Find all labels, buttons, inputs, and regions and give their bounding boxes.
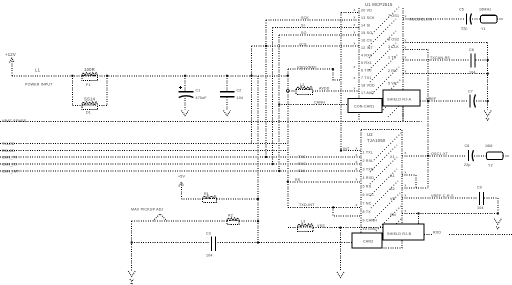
svg-text:C5: C5 xyxy=(459,8,464,12)
wire pin y=188 xyxy=(402,187,428,189)
svg-text:CAN_RX: CAN_RX xyxy=(2,163,18,167)
ground under C2 xyxy=(223,111,230,116)
wire AVDD y=90.5 xyxy=(313,90,359,92)
svg-text:4 RXD: 4 RXD xyxy=(363,176,375,180)
svg-text:GN: GN xyxy=(390,213,396,217)
svg-text:TXCAN-RS: TXCAN-RS xyxy=(430,56,450,60)
svg-text:C7: C7 xyxy=(468,90,473,94)
connector J2 box xyxy=(383,90,420,106)
wire RX y=73.6 xyxy=(403,73,488,75)
svg-text:SHIELD RJ-B: SHIELD RJ-B xyxy=(387,232,412,236)
svg-text:470uF: 470uF xyxy=(196,96,208,100)
svg-text:nCS: nCS xyxy=(299,42,307,46)
wire diag3 U1 xyxy=(369,31,396,58)
wire CS y=46 xyxy=(252,45,360,47)
svg-text:+12V: +12V xyxy=(5,52,16,57)
svg-text:D1: D1 xyxy=(86,111,91,115)
wire vertical x=131.7 xyxy=(131,221,133,270)
svg-text:POWER INPUT: POWER INPUT xyxy=(25,83,53,87)
svg-text:TXC: TXC xyxy=(298,155,306,159)
svg-text:A2: A2 xyxy=(390,187,395,191)
wire xyxy=(472,18,480,20)
svg-text:OSC1-XT: OSC1-XT xyxy=(431,152,449,156)
capacitor C7 xyxy=(470,95,476,108)
svg-text:U1 MCP2515: U1 MCP2515 xyxy=(365,2,393,7)
capacitor C3 series xyxy=(212,236,216,251)
svg-text:R2: R2 xyxy=(228,214,233,218)
U2 pin texts xyxy=(356,146,407,231)
svg-text:CANH: CANH xyxy=(314,101,325,105)
svg-text:AVDD: AVDD xyxy=(319,87,330,91)
power symbol +12V xyxy=(10,58,15,76)
svg-text:x: x xyxy=(405,151,407,155)
ground bottom left xyxy=(128,271,135,284)
svg-text:12 INT: 12 INT xyxy=(361,46,374,50)
svg-text:RS: RS xyxy=(295,178,301,182)
svg-text:22p: 22p xyxy=(464,163,471,167)
wire diag6 U2 xyxy=(373,193,400,220)
svg-text:SS14: SS14 xyxy=(84,97,96,102)
wire bead row y=227.7 xyxy=(288,227,383,229)
svg-text:L2: L2 xyxy=(300,83,304,87)
svg-text:RXD: RXD xyxy=(433,231,441,235)
wire vertical trunk G x=287.8 xyxy=(287,69,289,207)
svg-text:C3: C3 xyxy=(206,232,211,236)
svg-text:x: x xyxy=(354,86,356,90)
wire VREF y=101 xyxy=(420,100,467,102)
wire bus y=143.5 xyxy=(0,143,288,145)
svg-text:104: 104 xyxy=(477,206,484,210)
inductor L3 bead xyxy=(297,224,313,232)
svg-text:20 VD: 20 VD xyxy=(361,9,372,13)
svg-text:100R: 100R xyxy=(84,67,95,72)
crystal Y1 xyxy=(481,15,498,23)
wire bus y=171 xyxy=(0,170,361,172)
node pin circle xyxy=(287,90,290,93)
svg-text:10 GND: 10 GND xyxy=(363,227,377,231)
wire CANH y=104.5 xyxy=(279,104,348,106)
diode D1 parallel branch xyxy=(72,76,107,110)
svg-text:RXLED: RXLED xyxy=(2,149,15,153)
svg-text:2 RX: 2 RX xyxy=(388,69,397,73)
wire gnd row y=213.5 xyxy=(402,213,498,215)
svg-text:5 RS: 5 RS xyxy=(363,185,372,189)
wire xyxy=(497,18,504,20)
wire vertical x=340.5 xyxy=(340,228,342,272)
wire stub into J4 xyxy=(418,214,420,225)
svg-text:CAN_INT: CAN_INT xyxy=(2,170,19,174)
wire CLKOUT y=49.7 xyxy=(403,49,428,51)
svg-text:7 NC: 7 NC xyxy=(363,202,372,206)
wire pin y=198 xyxy=(402,197,478,199)
svg-text:7 TX1: 7 TX1 xyxy=(361,76,372,80)
svg-text:TXD-INT: TXD-INT xyxy=(299,203,315,207)
wire vertical x=428 xyxy=(427,50,429,188)
svg-text:3 TXD: 3 TXD xyxy=(363,168,374,172)
svg-text:SI: SI xyxy=(301,24,305,28)
wire bus y=157 xyxy=(0,156,361,158)
wire TX y=60 xyxy=(403,59,470,61)
wire diag4 U1 xyxy=(369,43,396,70)
resistor R2 xyxy=(227,218,239,220)
wire vertical x=497.8 xyxy=(497,198,499,214)
svg-text:VREF-C-R-S: VREF-C-R-S xyxy=(431,194,454,198)
wire diag6 U1 xyxy=(372,67,399,94)
wire diag2 U2 xyxy=(370,145,397,172)
svg-text:x: x xyxy=(405,56,407,60)
svg-text:x: x xyxy=(405,15,407,19)
wire diag3 U2 xyxy=(370,157,397,184)
svg-text:22p: 22p xyxy=(461,27,468,31)
svg-text:x: x xyxy=(405,194,407,198)
wire diag9 U1 xyxy=(388,104,401,117)
wire y=207.4 into U2 xyxy=(288,206,361,208)
svg-text:x: x xyxy=(354,31,356,35)
svg-text:+5V: +5V xyxy=(178,175,185,179)
svg-text:VREF: VREF xyxy=(426,97,437,101)
svg-text:VSS: VSS xyxy=(317,224,325,228)
svg-text:1 TXL: 1 TXL xyxy=(363,151,374,155)
capacitor C5 xyxy=(467,14,472,25)
wire diag1 U2 xyxy=(374,133,401,160)
svg-text:6 TX0: 6 TX0 xyxy=(361,69,372,73)
wire INT y=150.5 xyxy=(341,150,361,152)
svg-text:CLK: CLK xyxy=(298,169,306,173)
connector box texts xyxy=(354,98,412,244)
svg-text:CAN2: CAN2 xyxy=(363,240,373,244)
svg-text:5 RX1: 5 RX1 xyxy=(361,61,372,65)
svg-text:15 SO: 15 SO xyxy=(361,31,372,35)
capacitor C2 xyxy=(220,76,234,110)
svg-text:x: x xyxy=(405,171,407,175)
crystal Y2 xyxy=(487,152,504,160)
wire VDD y=69.1 xyxy=(288,69,341,80)
svg-text:x: x xyxy=(356,203,358,207)
svg-text:x: x xyxy=(405,45,407,49)
wire xyxy=(239,220,258,222)
svg-text:TXLED: TXLED xyxy=(2,142,15,146)
svg-text:9 CANH: 9 CANH xyxy=(363,219,378,223)
svg-text:6 VCC: 6 VCC xyxy=(363,193,375,197)
fuse F1 xyxy=(82,73,98,81)
inductor L2 bead xyxy=(289,87,313,95)
wire xyxy=(476,59,488,61)
wire xyxy=(217,198,258,200)
capacitor C9 xyxy=(480,192,484,205)
wire bus y=164 xyxy=(0,163,361,165)
svg-text:INT: INT xyxy=(343,147,350,151)
op-amp U1 right edge xyxy=(402,8,404,120)
connector J1 box xyxy=(348,99,382,113)
svg-text:x: x xyxy=(354,8,356,12)
svg-text:x: x xyxy=(356,160,358,164)
connector J3 box xyxy=(352,233,382,248)
wire RXCAN y=234.5 xyxy=(424,234,512,236)
svg-text:104: 104 xyxy=(469,71,476,75)
ground under C1 xyxy=(181,111,188,116)
capacitor C1 xyxy=(179,76,194,110)
transistor wiper mark xyxy=(153,214,167,221)
wire OSC2 loop y=42.6 xyxy=(403,42,488,44)
svg-text:X1: X1 xyxy=(390,155,395,159)
svg-text:F1: F1 xyxy=(86,83,91,87)
svg-text:C6: C6 xyxy=(469,48,474,52)
resistor R1 xyxy=(203,196,217,198)
svg-text:R1: R1 xyxy=(204,192,209,196)
svg-text:C9: C9 xyxy=(477,186,482,190)
ground bottom right xyxy=(494,219,501,225)
svg-text:16M: 16M xyxy=(485,144,493,148)
wire pin y=175 xyxy=(402,174,416,176)
connector J4 box xyxy=(383,224,424,240)
svg-text:A1: A1 xyxy=(390,174,395,178)
wire vertical trunk B x=258 xyxy=(257,76,259,243)
svg-text:16MHz: 16MHz xyxy=(479,8,491,12)
wire diag7 U2 xyxy=(376,206,401,231)
wire y=181.8 into U2 xyxy=(288,181,361,183)
svg-text:VDD/VREF: VDD/VREF xyxy=(297,65,317,69)
svg-text:16 CS: 16 CS xyxy=(361,39,372,43)
wire diag8 U1 xyxy=(381,92,401,112)
svg-text:x: x xyxy=(356,167,358,171)
svg-text:Y1: Y1 xyxy=(481,27,486,31)
svg-text:x: x xyxy=(405,69,407,73)
wire MISO y=34.8 xyxy=(279,34,359,36)
svg-text:3 CLK: 3 CLK xyxy=(388,45,399,49)
svg-text:TJA1050: TJA1050 xyxy=(367,138,386,143)
wire xyxy=(484,197,498,199)
wire vertical trunk C x=264.5 xyxy=(265,20,267,157)
svg-text:1 TX: 1 TX xyxy=(388,56,397,60)
capacitor C8 xyxy=(469,150,474,161)
svg-text:C8: C8 xyxy=(465,144,470,148)
wire vertical trunk D x=271 xyxy=(272,28,274,164)
wire xyxy=(503,155,509,157)
svg-text:x: x xyxy=(354,76,356,80)
svg-text:x: x xyxy=(354,16,356,20)
wire elbow xyxy=(415,175,417,188)
svg-text:13 SCK: 13 SCK xyxy=(361,16,375,20)
wire y=243 xyxy=(132,242,352,244)
wire xyxy=(474,155,486,157)
svg-text:x: x xyxy=(405,184,407,188)
svg-text:SHIELD RJ-A: SHIELD RJ-A xyxy=(387,98,412,102)
svg-text:CON-CAN1: CON-CAN1 xyxy=(354,105,374,109)
svg-text:L3: L3 xyxy=(301,220,305,224)
svg-text:104: 104 xyxy=(237,96,244,100)
svg-text:x: x xyxy=(356,178,358,182)
U1 pin texts xyxy=(354,8,407,95)
svg-text:C1: C1 xyxy=(196,89,201,93)
wire xyxy=(476,100,488,102)
op-amp U1 left edge xyxy=(358,8,360,120)
wire diag2 U1 xyxy=(369,19,396,46)
svg-text:VR: VR xyxy=(390,197,396,201)
svg-text:OSC1/CLKIN: OSC1/CLKIN xyxy=(409,18,433,22)
capacitor C6 xyxy=(471,54,475,68)
svg-text:MAX PICKUP ADJ: MAX PICKUP ADJ xyxy=(131,208,164,212)
svg-text:14 SI: 14 SI xyxy=(361,24,370,28)
wire y=221.2 xyxy=(132,220,227,222)
wire stub x=403 below box xyxy=(402,106,404,122)
svg-text:VBAT SENSE: VBAT SENSE xyxy=(2,119,27,123)
wire y=199 xyxy=(181,198,202,200)
svg-text:7 OS1: 7 OS1 xyxy=(388,14,399,18)
svg-text:C2: C2 xyxy=(237,89,242,93)
svg-text:L1: L1 xyxy=(35,68,41,73)
svg-text:2 RXL: 2 RXL xyxy=(363,159,374,163)
svg-text:x: x xyxy=(356,153,358,157)
wire diag5 U1 xyxy=(370,55,397,82)
wire net y=121.7 xyxy=(0,121,422,123)
wire RESET top y=12.4 xyxy=(341,11,359,13)
svg-text:8 OS2: 8 OS2 xyxy=(388,38,399,42)
ground right top xyxy=(484,111,491,117)
wire OSC1 y=19 xyxy=(403,18,465,20)
wire XTAL1 y=155.8 xyxy=(402,155,467,157)
svg-text:18 VDD: 18 VDD xyxy=(361,84,375,88)
svg-text:104: 104 xyxy=(206,254,213,258)
wire diag7 U1 xyxy=(375,79,401,105)
svg-text:x: x xyxy=(354,42,356,46)
wire vertical trunk A x=251.5 xyxy=(251,46,253,144)
wire SCK y=19.8 xyxy=(266,19,359,21)
wire vertical trunk E x=277.5 xyxy=(278,35,280,171)
op-amp U2 box xyxy=(361,130,402,249)
svg-text:4 RX0: 4 RX0 xyxy=(361,54,372,58)
svg-text:Y2: Y2 xyxy=(488,164,493,168)
wire MOSI y=27.4 xyxy=(273,27,360,29)
wire diag8 U2 xyxy=(382,219,401,238)
svg-text:U2: U2 xyxy=(367,132,373,137)
wire diag5 U2 xyxy=(371,181,398,208)
svg-text:17 AVD: 17 AVD xyxy=(361,91,374,95)
svg-text:x: x xyxy=(356,146,358,150)
wire bus y=150.5 xyxy=(0,150,288,152)
svg-text:CAN_TX: CAN_TX xyxy=(2,156,18,160)
wire vertical x=341 xyxy=(340,12,342,150)
wire diag1 U1 xyxy=(372,7,399,34)
wire diag4 U2 xyxy=(370,169,397,196)
svg-text:x: x xyxy=(405,209,407,213)
svg-text:x: x xyxy=(354,65,356,69)
wire vertical x=487.7 xyxy=(487,43,489,110)
svg-text:SCK: SCK xyxy=(301,16,309,20)
svg-text:5 VR: 5 VR xyxy=(388,82,397,86)
power arrow +5V xyxy=(179,182,184,199)
svg-text:x: x xyxy=(405,38,407,42)
wire rail VCC y=75.8 xyxy=(12,75,288,77)
svg-text:RXC: RXC xyxy=(298,162,306,166)
ground bottom center xyxy=(337,272,344,278)
wire branch elbow xyxy=(333,207,361,216)
svg-text:SO: SO xyxy=(301,31,307,35)
svg-text:8 TX: 8 TX xyxy=(363,210,372,214)
svg-text:x: x xyxy=(354,23,356,27)
